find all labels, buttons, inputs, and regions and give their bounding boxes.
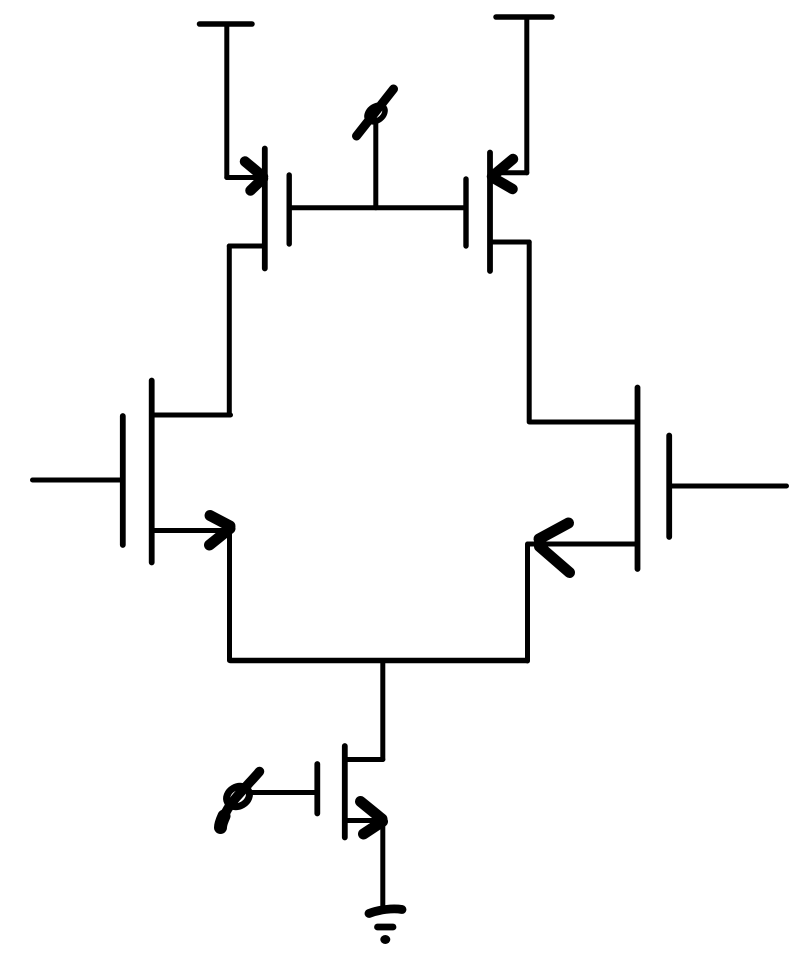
- bias label phi bottom: diagonal stroke: [221, 772, 260, 828]
- pmos M2 source arrow: [492, 159, 513, 189]
- wire input Vin+ to M3 gate: [33, 478, 123, 483]
- wire input Vin- to M4 gate: [669, 484, 786, 489]
- wire VDD to M1 source: [224, 24, 229, 178]
- wire M3 drain lead: [152, 413, 231, 418]
- nmos M3 gate bar: [120, 416, 126, 545]
- pmos M2 channel bar: [487, 153, 493, 272]
- nmos M5 gate bar: [314, 764, 320, 814]
- power rail VDD left bar: [200, 21, 253, 27]
- bias label phi top: diagonal stroke: [357, 89, 394, 136]
- nmos M3 channel bar: [149, 381, 155, 563]
- ground bar 1: [369, 909, 402, 914]
- bias label phi bottom: tail blob: [221, 816, 225, 828]
- wire bias phi to M5 gate: [251, 790, 317, 795]
- wire M5 source lead: [345, 818, 383, 823]
- power rail VDD right bar: [496, 14, 552, 20]
- bias label phi bottom: loop: [223, 782, 253, 810]
- wire pmos gate net: [289, 205, 466, 210]
- wire node A (M1 drain to M3 drain): [227, 246, 232, 415]
- wire tail rail to M5 drain: [380, 661, 385, 760]
- wire M4 drain lead: [530, 420, 637, 425]
- ground bar 2: [378, 924, 394, 931]
- wire M3 source to tail rail: [227, 528, 232, 661]
- bias label phi top: loop: [364, 102, 388, 125]
- nmos M5 channel bar: [342, 746, 348, 838]
- nmos M5 source arrow: [361, 802, 383, 835]
- pmos M2 gate bar: [463, 179, 468, 246]
- nmos M4 channel bar: [635, 388, 641, 570]
- wire M5 drain lead: [345, 757, 383, 762]
- ground dot: [380, 935, 390, 944]
- nmos M4 source arrow: [539, 523, 570, 573]
- pmos M1 gate bar: [287, 175, 292, 244]
- wire M4 source to tail rail: [525, 544, 530, 661]
- wire M2 drain lead: [492, 240, 530, 245]
- pmos M1 source arrow: [245, 162, 263, 191]
- wire M4 source lead: [528, 542, 638, 547]
- wire tail rail (node S): [231, 658, 527, 664]
- wire bias tap to gate net: [373, 120, 378, 208]
- nmos M4 gate bar: [666, 436, 672, 538]
- wire M3 source lead: [152, 528, 230, 533]
- wire VDD to M2 source: [524, 17, 529, 173]
- wire M5 source to ground: [380, 821, 385, 908]
- wire M1 source lead: [227, 175, 261, 180]
- wire M1 drain lead: [229, 244, 263, 249]
- pmos M1 channel bar: [262, 149, 268, 269]
- nmos M3 source arrow: [210, 516, 231, 546]
- wire node B (M2 drain to M4 drain): [527, 242, 532, 422]
- wire M2 source lead: [493, 170, 527, 175]
